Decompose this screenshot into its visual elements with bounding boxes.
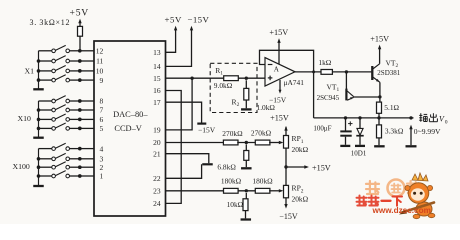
svg-text:RP1: RP1 [292,134,304,145]
svg-text:−15V: −15V [279,212,298,221]
svg-text:4: 4 [100,144,104,153]
svg-text:−15V: −15V [269,95,287,104]
svg-text:24: 24 [153,199,161,208]
svg-text:270kΩ: 270kΩ [222,129,243,138]
svg-text:CCD–V: CCD–V [114,124,141,133]
svg-text:X100: X100 [13,162,30,171]
svg-text:5: 5 [100,124,104,133]
svg-text:16: 16 [153,86,161,95]
svg-text:3.3kΩ: 3.3kΩ [385,126,404,135]
svg-text:270kΩ: 270kΩ [251,128,272,137]
svg-text:5.1Ω: 5.1Ω [384,103,399,112]
svg-text:11: 11 [96,57,103,66]
svg-text:+15V: +15V [370,35,389,44]
svg-text:14: 14 [153,62,161,71]
svg-text:23: 23 [153,187,161,196]
svg-text:VT2: VT2 [386,58,399,69]
svg-text:12: 12 [96,47,104,56]
svg-text:6.8kΩ: 6.8kΩ [217,162,236,171]
svg-text:10: 10 [96,67,104,76]
svg-text:9.0kΩ: 9.0kΩ [214,81,233,90]
svg-text:17: 17 [153,98,161,107]
svg-text:7: 7 [100,106,104,115]
svg-text:−15V: −15V [198,126,216,135]
svg-text:20kΩ: 20kΩ [292,194,309,203]
svg-text:R2: R2 [232,97,240,108]
svg-text:19: 19 [153,126,161,135]
svg-text:+15V: +15V [270,113,289,122]
svg-text:22: 22 [153,174,161,183]
svg-text:3. 3kΩ×12: 3. 3kΩ×12 [30,18,71,27]
svg-text:X10: X10 [18,114,32,123]
svg-text:0: 0 [445,119,448,125]
svg-text:2SC945: 2SC945 [317,94,340,102]
svg-text:13: 13 [153,48,161,57]
svg-text:R1: R1 [215,66,223,77]
svg-text:1: 1 [100,172,104,181]
svg-text:μA741: μA741 [284,78,305,87]
svg-text:+15V: +15V [269,28,288,37]
svg-text:180kΩ: 180kΩ [252,176,273,185]
svg-text:2SD381: 2SD381 [377,69,400,77]
svg-text:9: 9 [100,76,104,85]
svg-text:20kΩ: 20kΩ [292,145,309,154]
svg-text:www.dzsc.com: www.dzsc.com [372,206,431,215]
svg-text:RP2: RP2 [292,184,304,195]
svg-text:−15V: −15V [188,15,210,25]
svg-text:+5V: +5V [165,15,183,25]
svg-text:X1: X1 [25,67,35,76]
svg-text:10D1: 10D1 [351,150,367,158]
svg-text:15: 15 [153,74,161,83]
svg-text:0~9.99V: 0~9.99V [414,127,441,136]
svg-text:2: 2 [100,163,104,172]
svg-text:+15V: +15V [312,164,331,173]
svg-text:20: 20 [153,138,161,147]
svg-text:21: 21 [153,149,161,158]
svg-text:6: 6 [100,115,104,124]
svg-text:100μF: 100μF [313,124,331,132]
svg-text:VT1: VT1 [327,82,340,93]
svg-text:180kΩ: 180kΩ [221,176,242,185]
svg-text:1kΩ: 1kΩ [318,58,331,67]
svg-text:+5V: +5V [70,7,90,18]
svg-text:10kΩ: 10kΩ [227,200,244,209]
svg-text:DAC–80–: DAC–80– [113,110,148,119]
svg-text:A: A [274,66,280,74]
svg-text:8: 8 [100,97,104,106]
